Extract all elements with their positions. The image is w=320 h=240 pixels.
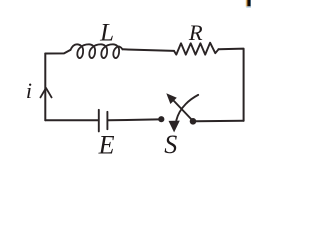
battery E right plate (106, 112, 108, 129)
svg-text:L: L (99, 19, 114, 46)
inductor L (71, 44, 123, 58)
switch S left contact dot (158, 116, 164, 122)
current arrow i (chevron on left wire) (40, 88, 51, 98)
wire: bottom segment from battery to switch (108, 118, 158, 121)
top-right corner cropped artifact (246, 0, 252, 7)
resistor R (174, 43, 219, 55)
wire: top middle segment between inductor and resistor (123, 49, 175, 51)
wire: left vertical branch (44, 54, 46, 121)
switch lever arrowhead (up-left) (166, 93, 177, 104)
wire: bottom-left segment to battery (45, 119, 98, 121)
wire: bottom-right segment from switch to corner (196, 120, 244, 122)
switch S lever (174, 101, 194, 122)
battery E left plate (98, 110, 100, 132)
svg-text:S: S (164, 130, 177, 159)
wire: top-left horizontal segment to inductor (45, 50, 70, 54)
svg-text:E: E (98, 130, 115, 159)
svg-text:R: R (188, 20, 203, 45)
switch S right contact dot (190, 118, 197, 125)
switch motion arrowhead (down) (169, 121, 180, 133)
svg-text:i: i (26, 78, 32, 103)
switch motion curved arrow (176, 95, 198, 121)
wire: top-right segment and right vertical branch (219, 49, 244, 121)
